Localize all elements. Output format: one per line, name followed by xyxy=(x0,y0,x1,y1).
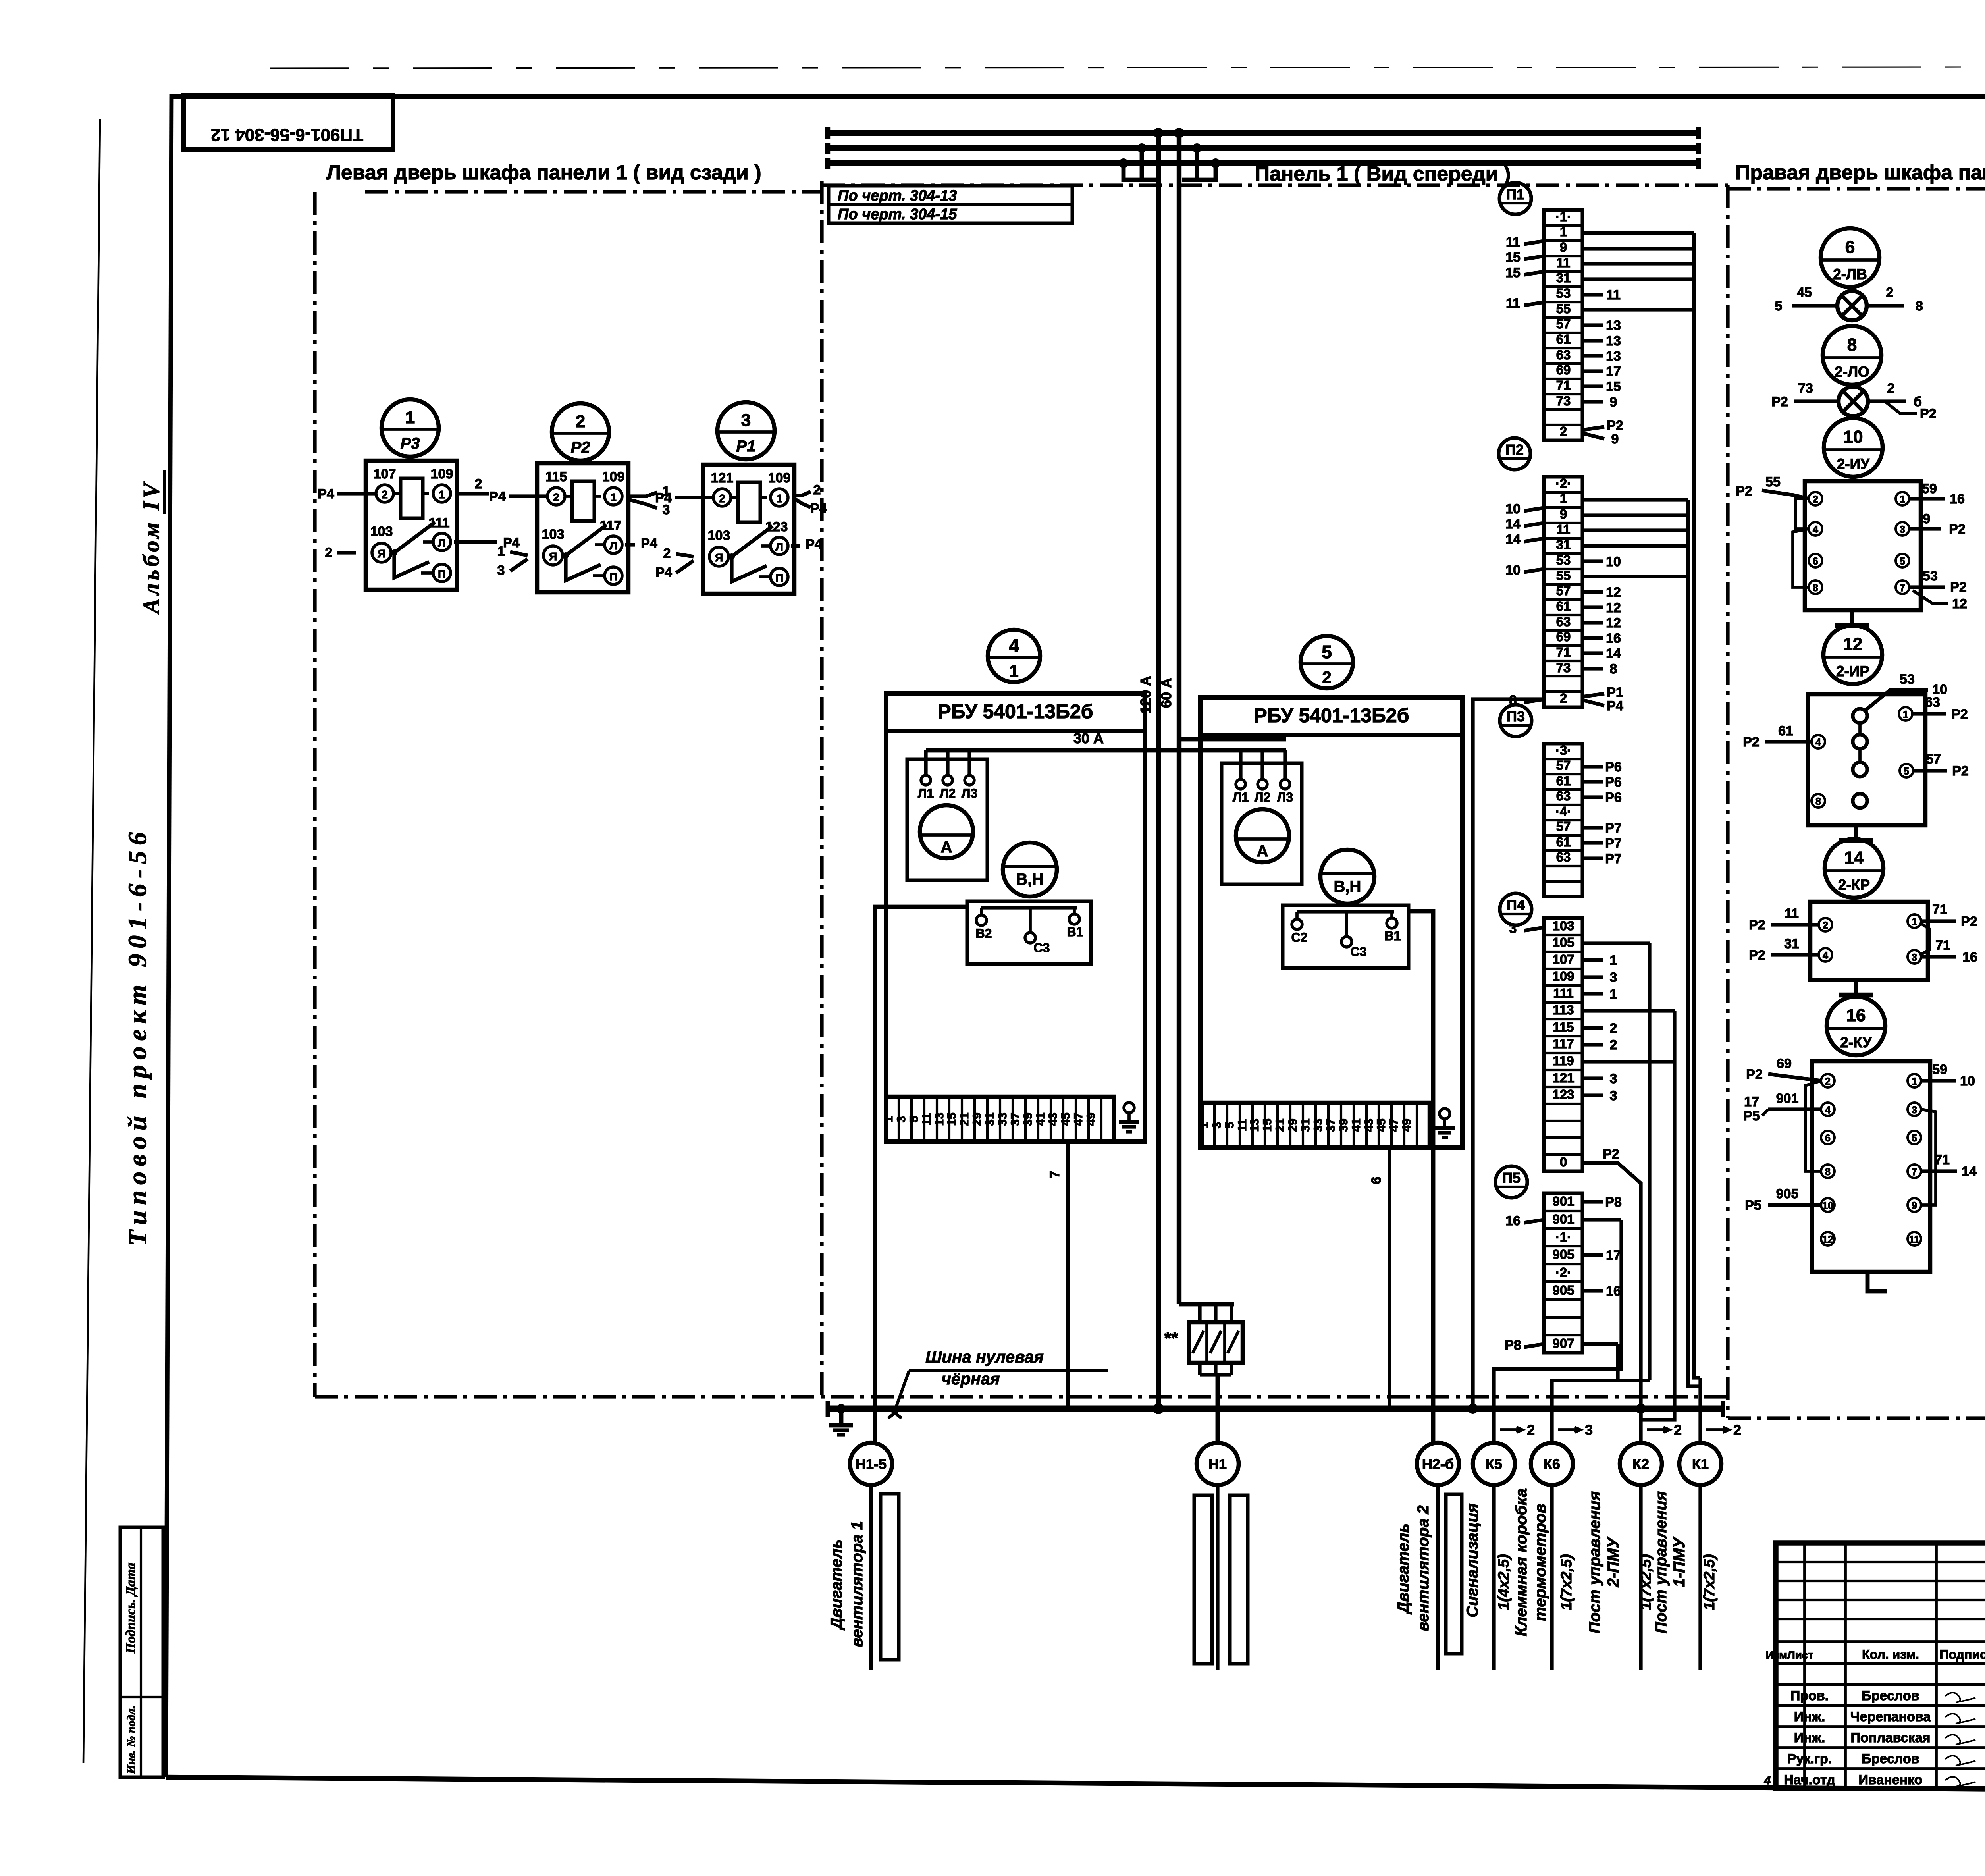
svg-text:61: 61 xyxy=(1778,723,1793,738)
svg-text:11: 11 xyxy=(1606,287,1621,303)
RBU unit 4 body xyxy=(886,694,1145,1142)
svg-text:3: 3 xyxy=(1900,524,1905,535)
wire RBU4 contactor to motor H1-5 xyxy=(875,907,967,1443)
RBU unit 5 contactor box xyxy=(1283,905,1409,968)
svg-text:5: 5 xyxy=(1223,1122,1236,1129)
RBU unit 4 ground terminal xyxy=(1124,1103,1134,1113)
stub wire to Р6 xyxy=(1582,765,1603,768)
svg-text:4: 4 xyxy=(1009,635,1019,656)
svg-text:1: 1 xyxy=(1610,953,1617,968)
designator circle 10/2-ИУ xyxy=(1824,418,1883,477)
svg-text:16: 16 xyxy=(1505,1213,1521,1228)
svg-text:37: 37 xyxy=(1324,1118,1337,1132)
svg-text:41: 41 xyxy=(1350,1118,1363,1132)
stub wires to Р1,Р4 xyxy=(1582,694,1604,697)
svg-text:2: 2 xyxy=(719,492,725,505)
svg-text:15: 15 xyxy=(1505,250,1521,265)
svg-text:Пост управления: Пост управления xyxy=(1652,1491,1670,1633)
svg-text:907: 907 xyxy=(1552,1336,1574,1351)
svg-text:П5: П5 xyxy=(1502,1170,1521,1186)
stub wire to 13 xyxy=(1582,339,1603,342)
svg-text:2: 2 xyxy=(1610,1037,1617,1053)
svg-text:Л3: Л3 xyxy=(962,786,977,800)
svg-text:Р4: Р4 xyxy=(318,486,334,501)
wire to collector xyxy=(1582,247,1694,250)
svg-text:11: 11 xyxy=(1506,296,1520,311)
sheet outer paper edge left xyxy=(83,119,100,1763)
outgoing circuit Н1 xyxy=(1197,1443,1239,1485)
svg-text:2: 2 xyxy=(663,546,671,561)
svg-text:11: 11 xyxy=(920,1113,933,1126)
svg-text:1(7х2,5): 1(7х2,5) xyxy=(1558,1554,1575,1610)
svg-text:1(4х2,5): 1(4х2,5) xyxy=(1495,1554,1512,1610)
svg-text:73: 73 xyxy=(1798,381,1813,396)
svg-text:12: 12 xyxy=(1843,634,1863,654)
wire 60A vertical xyxy=(1177,133,1181,1304)
svg-text:71: 71 xyxy=(1556,378,1571,393)
wire П5 to К5 xyxy=(1494,1220,1621,1443)
svg-text:43: 43 xyxy=(1046,1112,1060,1126)
svg-text:Бреслов: Бреслов xyxy=(1862,1751,1919,1766)
svg-text:3: 3 xyxy=(1912,1105,1917,1116)
svg-text:61: 61 xyxy=(1556,835,1571,849)
svg-text:Р2: Р2 xyxy=(1961,914,1977,929)
title block signatures scribbles xyxy=(1945,1693,1975,1702)
svg-text:71: 71 xyxy=(1556,645,1571,659)
svg-text:Р5: Р5 xyxy=(1743,1109,1760,1124)
svg-text:123: 123 xyxy=(765,519,788,534)
svg-text:2: 2 xyxy=(1322,668,1331,686)
svg-text:119: 119 xyxy=(1553,1053,1574,1068)
svg-text:2: 2 xyxy=(1825,1076,1831,1087)
svg-text:Р3: Р3 xyxy=(401,435,420,452)
svg-text:2-ИУ: 2-ИУ xyxy=(1837,456,1870,472)
RBU unit 5 ammeter compartment xyxy=(1222,763,1302,884)
svg-text:4: 4 xyxy=(1825,1105,1831,1116)
svg-text:57: 57 xyxy=(1556,758,1571,773)
RBU unit 5 ammeter A xyxy=(1236,809,1289,862)
svg-text:2: 2 xyxy=(325,545,333,560)
svg-text:Р2: Р2 xyxy=(1952,764,1969,779)
connector 2-ИР top lead 53 xyxy=(1865,690,1928,711)
stub wire to 12 xyxy=(1582,605,1603,609)
wire to collector xyxy=(1582,1009,1675,1012)
svg-text:901: 901 xyxy=(1776,1091,1799,1106)
wire to collector xyxy=(1582,528,1688,532)
wire to collector xyxy=(1582,544,1688,548)
outgoing circuit Н2-б xyxy=(1417,1443,1459,1485)
svg-text:53: 53 xyxy=(1923,569,1938,584)
svg-text:57: 57 xyxy=(1556,316,1571,331)
connector 2-ИР pin 8 xyxy=(1812,794,1825,808)
svg-text:63: 63 xyxy=(1556,850,1571,864)
svg-text:5: 5 xyxy=(1775,299,1783,314)
svg-text:Инж.: Инж. xyxy=(1794,1709,1825,1724)
svg-text:37: 37 xyxy=(1009,1112,1022,1126)
lamp symbol near 45 xyxy=(1837,291,1867,320)
connector 2-КР jumper 1-3 xyxy=(1921,924,1929,954)
RBU unit 5 phase leads xyxy=(1239,750,1242,779)
frame left border xyxy=(166,94,172,1777)
stub wire to 3 xyxy=(1582,975,1603,979)
svg-text:3: 3 xyxy=(497,563,505,578)
svg-text:3: 3 xyxy=(1210,1122,1224,1129)
svg-text:1: 1 xyxy=(776,492,782,505)
svg-text:По черт. 304-15: По черт. 304-15 xyxy=(838,206,957,223)
svg-text:3: 3 xyxy=(1610,1088,1617,1103)
svg-text:59: 59 xyxy=(1922,481,1937,496)
svg-text:Рук.гр.: Рук.гр. xyxy=(1787,1751,1832,1766)
zero bus xyxy=(828,1405,1723,1412)
svg-text:47: 47 xyxy=(1388,1118,1401,1132)
svg-text:63: 63 xyxy=(1556,789,1571,803)
designator circle 14/2-КР xyxy=(1825,839,1883,898)
svg-text:12: 12 xyxy=(1606,600,1621,615)
stub wire to 15 xyxy=(1582,384,1603,388)
svg-text:69: 69 xyxy=(1556,629,1571,644)
svg-text:12: 12 xyxy=(1952,596,1967,611)
svg-text:13: 13 xyxy=(1606,334,1621,349)
svg-text:1(7х2,5): 1(7х2,5) xyxy=(1638,1554,1654,1610)
svg-text:11: 11 xyxy=(1236,1119,1249,1132)
svg-text:вентилятора 1: вентилятора 1 xyxy=(848,1521,866,1647)
stub wire from 15 xyxy=(1524,272,1544,275)
RBU unit 4 terminal strip xyxy=(886,1097,1114,1142)
svg-text:105: 105 xyxy=(1552,935,1574,950)
svg-text:Р1: Р1 xyxy=(1607,685,1623,700)
svg-text:Р2: Р2 xyxy=(1607,418,1623,433)
stub wire from 15 xyxy=(1524,256,1544,259)
svg-text:49: 49 xyxy=(1085,1112,1098,1126)
svg-text:6: 6 xyxy=(1369,1177,1384,1184)
svg-text:Подпись. Дата: Подпись. Дата xyxy=(123,1563,138,1654)
RBU unit 4 ammeter compartment xyxy=(907,759,987,880)
stub wire from 10 xyxy=(1524,569,1544,572)
designator circle 8/2-ЛО xyxy=(1823,326,1881,385)
title block outer xyxy=(1776,1543,1985,1789)
connector 2-ИУ left lead 55 xyxy=(1762,490,1809,499)
svg-text:1-ПМУ: 1-ПМУ xyxy=(1671,1537,1688,1587)
stub wire from 3 xyxy=(1524,927,1544,931)
svg-text:15: 15 xyxy=(945,1112,958,1126)
svg-text:2: 2 xyxy=(475,476,482,492)
terminal strip body xyxy=(1544,210,1582,440)
svg-text:Р8: Р8 xyxy=(1505,1338,1521,1353)
RBU unit 4 contactor box xyxy=(967,901,1091,964)
svg-text:П3: П3 xyxy=(1507,708,1525,725)
svg-text:Иваненко: Иваненко xyxy=(1858,1772,1922,1787)
svg-text:П: П xyxy=(775,572,783,584)
relay Р3 body xyxy=(366,461,457,590)
svg-text:57: 57 xyxy=(1556,819,1571,834)
svg-text:33: 33 xyxy=(1312,1118,1325,1132)
wire to К1 xyxy=(1698,1378,1702,1443)
svg-text:·1·: ·1· xyxy=(1555,1230,1571,1244)
svg-text:9: 9 xyxy=(1611,432,1619,447)
svg-text:109: 109 xyxy=(768,470,791,486)
stub wire from 11 xyxy=(1524,241,1544,244)
svg-text:Поплавская: Поплавская xyxy=(1851,1730,1931,1745)
svg-text:Р2: Р2 xyxy=(1736,484,1752,499)
sheet outer paper edge top xyxy=(270,67,1985,68)
bus phase C xyxy=(828,160,1698,166)
outgoing circuit К2 xyxy=(1620,1443,1662,1485)
svg-text:РБУ 5401-13Б2б: РБУ 5401-13Б2б xyxy=(1254,704,1409,727)
svg-text:53: 53 xyxy=(1556,286,1571,301)
svg-text:109: 109 xyxy=(431,467,453,482)
svg-text:2-ЛВ: 2-ЛВ xyxy=(1833,266,1867,282)
svg-text:Л1: Л1 xyxy=(1233,790,1249,804)
svg-text:2-ПМУ: 2-ПМУ xyxy=(1605,1537,1622,1588)
svg-text:7: 7 xyxy=(1912,1166,1917,1178)
svg-text:901: 901 xyxy=(1552,1212,1574,1226)
relay Р2 body xyxy=(537,463,628,592)
stub wire from 14 xyxy=(1524,538,1544,542)
svg-text:117: 117 xyxy=(600,518,622,533)
stub wire to Р6 xyxy=(1582,795,1603,799)
connector 2-КУ bottom stub xyxy=(1867,1272,1887,1291)
stub wire from 14 xyxy=(1524,523,1544,526)
svg-text:Р6: Р6 xyxy=(1605,760,1622,775)
designator circle 16/2-КУ xyxy=(1827,997,1885,1055)
stub wire from 8 xyxy=(1524,699,1544,702)
svg-text:57: 57 xyxy=(1556,583,1571,598)
svg-text:Р5: Р5 xyxy=(1745,1198,1761,1213)
svg-text:Р4: Р4 xyxy=(655,490,672,505)
svg-text:71: 71 xyxy=(1932,902,1947,917)
svg-text:45: 45 xyxy=(1059,1112,1072,1126)
svg-text:31: 31 xyxy=(1784,936,1799,951)
connector 2-ИР contact circles xyxy=(1853,709,1867,723)
arrow label К2 2 xyxy=(1647,1428,1667,1431)
svg-text:·2·: ·2· xyxy=(1555,1265,1571,1280)
wire collector П2 vertical xyxy=(1688,500,1700,1386)
svg-text:Р2: Р2 xyxy=(1749,918,1765,933)
svg-text:21: 21 xyxy=(1274,1118,1287,1132)
svg-text:Л2: Л2 xyxy=(940,786,956,800)
svg-text:П1: П1 xyxy=(1506,186,1524,202)
svg-text:13: 13 xyxy=(1248,1118,1261,1132)
svg-text:9: 9 xyxy=(1560,240,1567,255)
svg-text:Р2: Р2 xyxy=(1950,580,1967,595)
outgoing circuit Н1-5 xyxy=(850,1443,892,1485)
region boundary left door vertical xyxy=(313,192,316,1397)
terminal strip body xyxy=(1544,918,1582,1171)
connector 2-КУ right leads xyxy=(1921,1079,1956,1082)
svg-text:Левая дверь шкафа панели 1: Левая дверь шкафа панели 1 ( вид сзади ) xyxy=(326,161,761,184)
svg-text:17: 17 xyxy=(1606,364,1621,379)
svg-text:Р4: Р4 xyxy=(655,565,672,580)
svg-text:2: 2 xyxy=(1560,691,1567,706)
stub wire to 3 xyxy=(1582,1076,1603,1080)
svg-text:15: 15 xyxy=(1606,379,1621,394)
svg-text:5: 5 xyxy=(1912,1133,1917,1144)
connector 2-КУ pins right xyxy=(1908,1074,1921,1087)
svg-text:3: 3 xyxy=(1610,970,1617,985)
connector 2-КР pins right xyxy=(1908,914,1921,928)
svg-text:Р2: Р2 xyxy=(571,439,590,456)
svg-text:9: 9 xyxy=(1560,507,1567,521)
svg-text:Р2: Р2 xyxy=(1743,735,1760,750)
svg-text:121: 121 xyxy=(711,470,734,486)
stub wire to 9 xyxy=(1582,400,1603,403)
designator circle 12/2-ИР xyxy=(1823,625,1882,684)
svg-text:39: 39 xyxy=(1337,1118,1350,1132)
svg-text:П4: П4 xyxy=(1507,897,1525,913)
svg-text:Н1: Н1 xyxy=(1208,1456,1227,1472)
wire К2 drop xyxy=(1639,1409,1642,1443)
svg-text:2: 2 xyxy=(813,482,821,497)
svg-text:Л1: Л1 xyxy=(918,786,934,800)
svg-text:49: 49 xyxy=(1400,1118,1413,1132)
svg-text:33: 33 xyxy=(996,1112,1009,1126)
region boundary left/panel1 vertical xyxy=(820,181,823,1397)
svg-text:·4·: ·4· xyxy=(1555,804,1571,819)
wire to collector xyxy=(1582,1342,1618,1346)
svg-text:1: 1 xyxy=(1009,661,1018,680)
connector block 2-КУ xyxy=(1812,1061,1930,1272)
wire collector П4b vertical to К2 xyxy=(1641,1011,1675,1420)
svg-text:5: 5 xyxy=(1322,642,1332,662)
svg-text:вентилятора 2: вентилятора 2 xyxy=(1415,1505,1432,1631)
RBU unit 5 switch В,Н xyxy=(1320,850,1374,904)
connector 2-ИУ right leads xyxy=(1909,497,1945,500)
outgoing circuit К1 xyxy=(1679,1443,1721,1485)
relay Р1 coil xyxy=(738,482,760,522)
stub wire to 2 xyxy=(1582,1026,1603,1030)
svg-text:Инв. № подл.: Инв. № подл. xyxy=(125,1706,138,1774)
svg-text:11: 11 xyxy=(1506,235,1520,250)
svg-text:Черепанова: Черепанова xyxy=(1850,1709,1931,1724)
svg-text:5: 5 xyxy=(1904,766,1909,777)
svg-text:7: 7 xyxy=(1900,582,1905,594)
svg-text:2: 2 xyxy=(1823,920,1828,931)
svg-text:8: 8 xyxy=(1813,582,1818,594)
svg-text:1: 1 xyxy=(1903,709,1908,720)
stub wire to 3 xyxy=(1582,1093,1603,1097)
svg-text:16: 16 xyxy=(1950,492,1965,507)
svg-text:6: 6 xyxy=(1825,1133,1831,1144)
svg-text:14: 14 xyxy=(1606,646,1621,661)
svg-text:П2: П2 xyxy=(1505,442,1524,458)
svg-text:29: 29 xyxy=(1286,1118,1299,1132)
svg-text:11: 11 xyxy=(1909,1234,1920,1245)
region boundary bottom left+panel xyxy=(315,1395,1728,1398)
svg-text:П: П xyxy=(609,571,617,583)
relay Р1 terminal П xyxy=(771,568,788,586)
svg-text:Кол. изм.: Кол. изм. xyxy=(1862,1647,1919,1662)
svg-text:·1·: ·1· xyxy=(1555,209,1571,224)
svg-text:14: 14 xyxy=(1844,848,1864,868)
svg-text:11: 11 xyxy=(1785,906,1799,921)
stub wire to 8 xyxy=(1582,667,1603,670)
svg-text:термометров: термометров xyxy=(1532,1504,1549,1621)
terminal strip designator circle П4 xyxy=(1500,893,1532,925)
svg-text:9: 9 xyxy=(1923,511,1931,526)
svg-text:8: 8 xyxy=(1916,299,1923,314)
svg-text:47: 47 xyxy=(1072,1112,1085,1126)
connector block 2-ИР xyxy=(1808,694,1925,825)
wire 30A from RBU4 feed xyxy=(926,748,1286,753)
connector block 2-КР xyxy=(1810,902,1928,980)
svg-text:905: 905 xyxy=(1552,1283,1574,1298)
svg-text:Я: Я xyxy=(549,550,557,563)
svg-text:2: 2 xyxy=(1527,1422,1535,1438)
RBU unit 5 ground terminal xyxy=(1440,1109,1450,1119)
stub wires to Р2,9 xyxy=(1582,427,1604,430)
lamp symbol near 73 xyxy=(1839,387,1868,416)
svg-text:5: 5 xyxy=(908,1116,921,1123)
svg-text:57: 57 xyxy=(1926,752,1941,767)
connector stem xyxy=(1850,610,1854,625)
svg-text:10: 10 xyxy=(1822,1200,1833,1211)
relay Р1 switch contact xyxy=(728,553,735,560)
svg-text:13: 13 xyxy=(933,1112,946,1126)
terminal strip designator circle П2 xyxy=(1499,438,1530,470)
svg-text:45: 45 xyxy=(1797,285,1812,300)
svg-text:А: А xyxy=(941,839,952,856)
RBU unit 5 header РБУ 5401-13Б2б xyxy=(1201,733,1463,737)
region boundary panel1/right door vertical xyxy=(1726,185,1729,1418)
cable rect Н1-5 xyxy=(881,1494,899,1660)
wire П2 row2 to zero bus xyxy=(1473,699,1544,1409)
svg-text:103: 103 xyxy=(542,527,565,542)
svg-text:3: 3 xyxy=(1585,1422,1593,1438)
terminal strip body xyxy=(1544,1193,1582,1353)
svg-text:К5: К5 xyxy=(1486,1456,1502,1472)
svg-text:115: 115 xyxy=(1553,1020,1574,1034)
wire to collector xyxy=(1582,308,1694,311)
svg-text:13: 13 xyxy=(1606,349,1621,364)
svg-text:Р6: Р6 xyxy=(1605,790,1622,805)
svg-text:чёрная: чёрная xyxy=(942,1369,1000,1388)
svg-text:8: 8 xyxy=(1815,796,1821,807)
connector 2-КУ left leads xyxy=(1768,1074,1821,1081)
svg-text:4: 4 xyxy=(1823,950,1828,961)
RBU unit 4 header РБУ 5401-13Б2б xyxy=(886,729,1145,733)
svg-text:·3·: ·3· xyxy=(1555,743,1571,758)
svg-text:Двигатель: Двигатель xyxy=(828,1539,845,1631)
stub wire to 16 xyxy=(1582,636,1603,640)
region underline panel 1 xyxy=(822,183,1728,187)
svg-text:3: 3 xyxy=(741,411,751,430)
svg-text:111: 111 xyxy=(1553,986,1573,1001)
wire collector П4a vertical to К6 xyxy=(1648,943,1651,1380)
svg-text:1: 1 xyxy=(1198,1122,1211,1129)
svg-text:Р2: Р2 xyxy=(1746,1067,1763,1082)
svg-text:55: 55 xyxy=(1556,568,1571,583)
svg-text:Н2-б: Н2-б xyxy=(1422,1456,1454,1472)
cable rect Н2-б xyxy=(1446,1494,1462,1654)
svg-text:РБУ 5401-13Б2б: РБУ 5401-13Б2б xyxy=(938,700,1093,723)
svg-text:905: 905 xyxy=(1776,1186,1799,1201)
svg-text:1: 1 xyxy=(497,544,505,559)
connector 2-ИУ jumpers xyxy=(1796,499,1809,529)
svg-text:10: 10 xyxy=(1606,554,1621,569)
svg-text:121: 121 xyxy=(1552,1070,1574,1085)
svg-text:**: ** xyxy=(1164,1328,1178,1348)
RBU unit 5 wire 6 to zero bus xyxy=(1388,1148,1391,1409)
svg-text:55: 55 xyxy=(1765,474,1781,490)
svg-text:К1: К1 xyxy=(1692,1456,1709,1472)
wire to collector xyxy=(1582,513,1688,517)
svg-text:К6: К6 xyxy=(1544,1456,1560,1472)
fuse block output wire to H1 xyxy=(1198,1363,1201,1375)
stub wire from Р8 xyxy=(1524,1344,1544,1347)
svg-text:16: 16 xyxy=(1606,1284,1621,1299)
svg-text:Р2: Р2 xyxy=(1603,1147,1619,1162)
svg-text:Альбом IV: Альбом IV xyxy=(138,480,164,615)
